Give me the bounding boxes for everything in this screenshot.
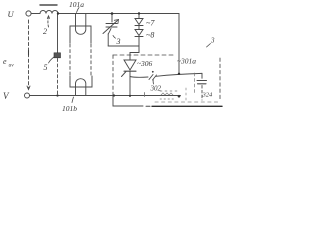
svg-text:~301a: ~301a <box>177 57 196 66</box>
svg-text:3: 3 <box>210 37 215 45</box>
svg-text:uv: uv <box>9 63 15 69</box>
svg-text:~306: ~306 <box>137 59 153 68</box>
svg-text:3: 3 <box>116 37 121 46</box>
svg-text:101b: 101b <box>62 104 77 113</box>
svg-text:101a: 101a <box>69 0 84 9</box>
svg-text:324: 324 <box>202 92 214 99</box>
svg-text:2: 2 <box>43 27 47 36</box>
svg-text:302: 302 <box>150 85 162 93</box>
svg-text:e: e <box>3 57 7 66</box>
svg-text:U: U <box>8 9 15 19</box>
svg-text:5: 5 <box>44 63 48 72</box>
svg-text:~8: ~8 <box>146 31 154 40</box>
svg-text:~7: ~7 <box>146 19 155 28</box>
